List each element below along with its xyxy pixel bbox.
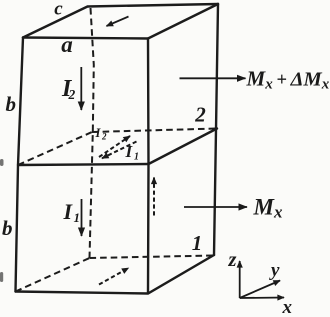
svg-text:c: c xyxy=(54,0,63,20)
svg-text:2: 2 xyxy=(68,87,76,102)
svg-text:I: I xyxy=(63,199,74,224)
svg-text:2: 2 xyxy=(194,103,206,127)
svg-text:1: 1 xyxy=(134,152,139,163)
svg-text:1: 1 xyxy=(74,210,81,225)
svg-text:x: x xyxy=(282,297,293,317)
svg-text:a: a xyxy=(61,32,73,57)
svg-text:Mx + ΔMx: Mx + ΔMx xyxy=(246,66,330,92)
svg-text:y: y xyxy=(269,260,280,281)
svg-text:b: b xyxy=(2,216,13,240)
svg-text:2: 2 xyxy=(101,132,107,142)
svg-text:b: b xyxy=(6,92,17,116)
svg-text:z: z xyxy=(228,249,237,271)
svg-text:1: 1 xyxy=(192,231,203,255)
